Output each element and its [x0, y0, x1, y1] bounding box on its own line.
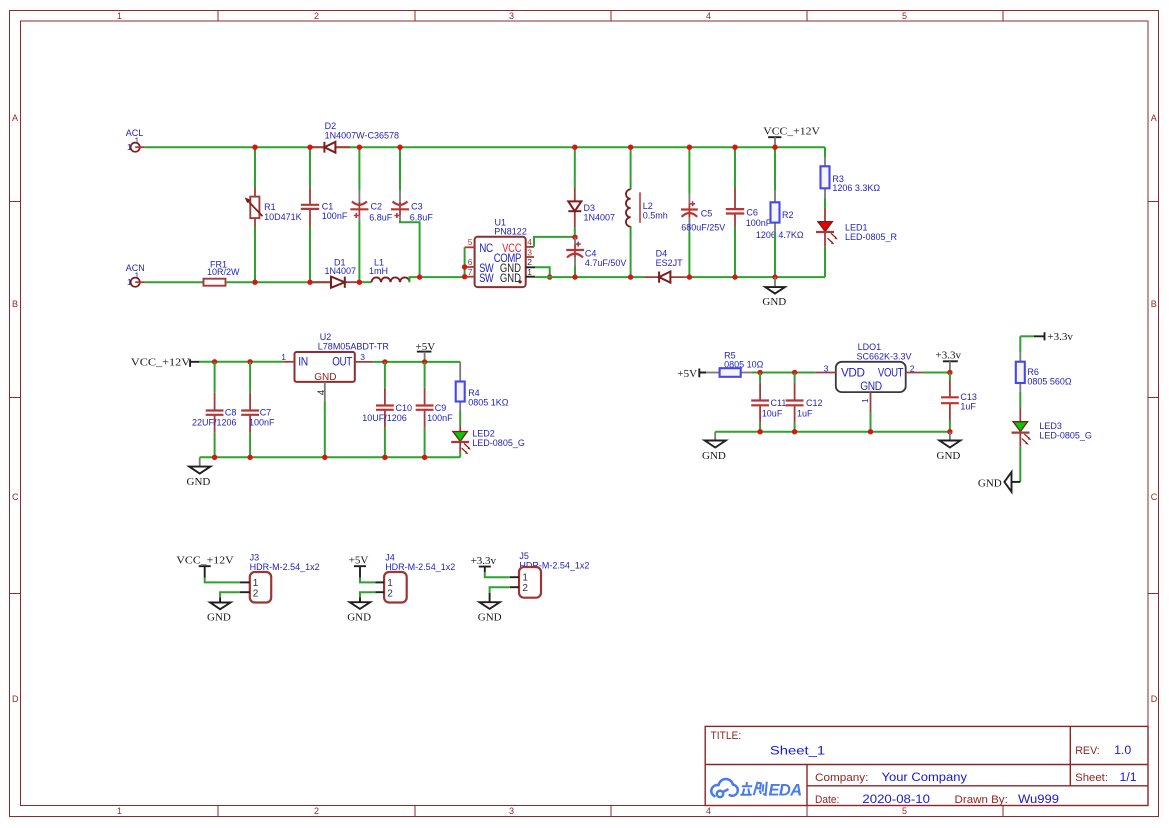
- junction C1 top: [307, 145, 312, 150]
- junction C6 top: [732, 145, 737, 150]
- ground GND row2: [187, 457, 211, 488]
- svg-text:C2: C2: [371, 201, 383, 211]
- svg-text:C3: C3: [411, 201, 423, 211]
- svg-text:GND: GND: [207, 612, 231, 624]
- svg-text:C: C: [12, 492, 19, 502]
- svg-text:10uF: 10uF: [762, 408, 783, 418]
- svg-text:SC662K-3.3V: SC662K-3.3V: [857, 352, 912, 362]
- svg-text:LED2: LED2: [472, 429, 495, 439]
- J3 pin 1 stub: [240, 581, 250, 583]
- J4 pin 2 stub: [375, 591, 384, 593]
- svg-text:100nF: 100nF: [249, 417, 275, 427]
- svg-text:Drawn By:: Drawn By:: [955, 794, 1008, 806]
- wire L1 jog up to U1 rail: [410, 277, 465, 282]
- wire J4 pin2 to gnd: [360, 592, 375, 597]
- resistor R4: [456, 362, 509, 426]
- regulator LDO1 SC662K-3.3V: [836, 342, 912, 393]
- EasyEDA logo character Li: [740, 782, 752, 795]
- junction C13 top: [947, 370, 952, 375]
- J4 pin 1 stub: [375, 581, 384, 583]
- svg-text:A: A: [12, 113, 18, 123]
- wire VCC to U2 pin1: [199, 361, 283, 363]
- svg-text:R1: R1: [264, 202, 276, 212]
- LDO1 pin 3: [815, 364, 836, 374]
- LDO1 pin 1 GND: [860, 392, 871, 432]
- diode D2: [310, 121, 399, 153]
- wire J5 pin2 to gnd: [490, 587, 510, 593]
- svg-text:HDR-M-2.54_1x2: HDR-M-2.54_1x2: [385, 562, 455, 572]
- junction LDO gnd bottom: [868, 429, 873, 434]
- svg-text:1206 4.7KΩ: 1206 4.7KΩ: [756, 230, 804, 240]
- svg-text:10UF/1206: 10UF/1206: [362, 413, 407, 423]
- svg-text:GND: GND: [500, 273, 521, 285]
- svg-text:HDR-M-2.54_1x2: HDR-M-2.54_1x2: [250, 562, 320, 572]
- svg-text:PN8122: PN8122: [494, 227, 527, 237]
- power flag +5V J4: [349, 554, 369, 577]
- svg-text:4.7uF/50V: 4.7uF/50V: [585, 258, 627, 268]
- svg-text:10D471K: 10D471K: [264, 212, 302, 222]
- junction C9 bottom: [422, 455, 427, 460]
- svg-text:GND: GND: [937, 450, 961, 462]
- svg-text:6.8uF: 6.8uF: [369, 213, 393, 223]
- port ACL: [126, 128, 145, 152]
- svg-text:SW: SW: [479, 273, 494, 285]
- svg-text:22UF/1206: 22UF/1206: [192, 417, 237, 427]
- wire LDO out to +3.3v: [922, 372, 950, 374]
- junction C9 +5V node: [422, 359, 427, 364]
- svg-text:0805 560Ω: 0805 560Ω: [1027, 377, 1072, 387]
- capacitor C7: [241, 362, 275, 458]
- svg-text:2: 2: [522, 583, 528, 594]
- svg-text:C7: C7: [260, 407, 272, 417]
- wire ACN to FR1: [145, 281, 204, 283]
- junction C11 bottom: [757, 429, 762, 434]
- capacitor C2: [350, 147, 392, 282]
- junction C5 bottom: [687, 274, 692, 279]
- U2 pin 3: [355, 352, 373, 362]
- svg-text:R4: R4: [468, 388, 480, 398]
- J3 pin 2 stub: [240, 591, 250, 593]
- J5 pin 1 stub: [510, 576, 519, 578]
- junction C4 top node: [572, 235, 577, 240]
- svg-text:1.0: 1.0: [1114, 745, 1131, 757]
- svg-text:5: 5: [902, 806, 907, 816]
- svg-text:VCC_+12V: VCC_+12V: [176, 554, 233, 566]
- svg-text:3: 3: [527, 247, 532, 257]
- svg-text:1206 3.3KΩ: 1206 3.3KΩ: [832, 183, 880, 193]
- svg-text:+3.3v: +3.3v: [1047, 331, 1073, 343]
- svg-text:1N4007: 1N4007: [325, 266, 357, 276]
- svg-text:1uF: 1uF: [960, 402, 976, 412]
- LED LED2: [451, 426, 525, 458]
- svg-text:A: A: [1151, 113, 1157, 123]
- junction C7 top: [247, 359, 252, 364]
- wire J4 pin1: [360, 578, 375, 583]
- U1 pin 2 GND: [526, 257, 535, 267]
- svg-text:LED-0805_R: LED-0805_R: [845, 232, 898, 242]
- svg-text:1: 1: [387, 578, 393, 589]
- J5 pin 2 stub: [510, 586, 519, 588]
- power flag VCC_+12V J3: [176, 554, 233, 577]
- svg-text:2: 2: [387, 589, 393, 600]
- wire LDO bottom rail: [715, 431, 950, 433]
- capacitor C4: [566, 237, 626, 277]
- op-amp U1 PN8122 body: [475, 218, 527, 288]
- resistor R5: [706, 350, 764, 377]
- svg-text:1N4007W-C36578: 1N4007W-C36578: [325, 130, 399, 140]
- wire net ACL top rail: [145, 146, 825, 148]
- svg-text:680uF/25V: 680uF/25V: [681, 222, 725, 232]
- svg-text:GND: GND: [347, 612, 371, 624]
- svg-text:U2: U2: [320, 332, 332, 342]
- diode D4: [644, 249, 686, 283]
- resistor R6: [1016, 336, 1072, 408]
- LDO1 pin 2: [906, 364, 922, 374]
- connector J5 HDR-M-2.54_1x2: [519, 551, 589, 598]
- wire FR1 to D1: [226, 281, 332, 283]
- svg-text:Sheet:: Sheet:: [1075, 772, 1108, 784]
- inductor L1: [358, 257, 410, 282]
- svg-text:REV:: REV:: [1075, 745, 1100, 757]
- wire U1 bottom rail: [535, 276, 644, 278]
- wire J5 pin1: [485, 572, 510, 577]
- junction L2 top: [628, 145, 633, 150]
- regulator U2 L78M05ABDT-TR: [295, 332, 390, 383]
- svg-text:1uF: 1uF: [797, 408, 813, 418]
- svg-text:+5V: +5V: [677, 368, 697, 380]
- svg-text:GND: GND: [314, 371, 337, 383]
- svg-text:IN: IN: [298, 357, 308, 369]
- junction C7 bottom: [247, 455, 252, 460]
- svg-text:LED-0805_G: LED-0805_G: [472, 438, 525, 448]
- svg-text:VDD: VDD: [841, 368, 865, 380]
- svg-text:4: 4: [527, 237, 532, 247]
- svg-text:C: C: [1151, 492, 1158, 502]
- ground GND under R2: [762, 277, 786, 308]
- junction C10 top: [382, 359, 387, 364]
- svg-text:C1: C1: [322, 201, 334, 211]
- U1 pin 1 GND: [526, 267, 535, 277]
- connector J4 HDR-M-2.54_1x2: [384, 552, 455, 602]
- power flag +3.3v J5: [471, 555, 497, 572]
- svg-text:L78M05ABDT-TR: L78M05ABDT-TR: [318, 341, 390, 351]
- frame column ticks top: [218, 11, 1003, 22]
- resistor R3: [821, 147, 881, 208]
- svg-text:C13: C13: [960, 392, 977, 402]
- U1 pin 3 COMP: [526, 247, 534, 257]
- svg-text:TITLE:: TITLE:: [711, 730, 742, 742]
- svg-text:2020-08-10: 2020-08-10: [862, 794, 930, 806]
- frame column ticks bottom: [218, 806, 1003, 817]
- svg-text:GND: GND: [860, 381, 882, 393]
- svg-text:GND: GND: [762, 296, 786, 308]
- power flag VCC_+12V: [763, 126, 820, 148]
- svg-text:6.8uF: 6.8uF: [410, 213, 434, 223]
- svg-text:B: B: [1151, 299, 1157, 309]
- U1 pin 4 VCC: [526, 237, 534, 247]
- svg-text:5: 5: [468, 237, 473, 247]
- resistor R2: [756, 147, 804, 277]
- svg-text:4: 4: [706, 11, 711, 21]
- junction C5 top: [687, 145, 692, 150]
- junction C6 bottom: [732, 274, 737, 279]
- svg-text:GND: GND: [478, 612, 502, 624]
- svg-text:R2: R2: [782, 210, 794, 220]
- svg-text:OUT: OUT: [332, 357, 352, 369]
- U2 pin 1: [281, 352, 294, 362]
- svg-text:C9: C9: [435, 403, 447, 413]
- svg-text:3: 3: [509, 806, 514, 816]
- power flag +5V row2: [416, 341, 436, 362]
- capacitor C8: [192, 362, 237, 458]
- EasyEDA logo cloud: [711, 779, 738, 796]
- svg-text:C11: C11: [771, 398, 787, 408]
- junction C3 top: [397, 145, 402, 150]
- ground GND J4: [347, 597, 371, 623]
- wire D4 to C5: [686, 276, 826, 278]
- power flag +3.3v LDO: [936, 350, 962, 373]
- svg-text:Wu999: Wu999: [1018, 794, 1059, 806]
- junction C12 bottom: [792, 429, 797, 434]
- capacitor C12: [786, 373, 823, 432]
- junction R1 top: [252, 145, 257, 150]
- connector J3 HDR-M-2.54_1x2: [250, 552, 320, 602]
- svg-text:1: 1: [117, 11, 122, 21]
- wire U2 out rail: [373, 361, 460, 363]
- svg-text:J4: J4: [385, 552, 395, 562]
- capacitor C3: [391, 147, 433, 222]
- junction C3 drop on U1 rail: [417, 274, 422, 279]
- frame column numbers bottom: [117, 806, 907, 816]
- svg-text:100nF: 100nF: [427, 413, 453, 423]
- svg-text:LDO1: LDO1: [858, 342, 882, 352]
- junction C8 bottom: [212, 455, 217, 460]
- junction VCC node: [772, 145, 777, 150]
- svg-text:1: 1: [527, 267, 532, 277]
- junction L2 bottom: [628, 274, 633, 279]
- frame row ticks right: [1148, 202, 1159, 594]
- svg-text:7: 7: [468, 267, 473, 277]
- U1 pin 7: [465, 267, 475, 277]
- svg-text:LED1: LED1: [845, 222, 868, 232]
- ground GND LDO left: [702, 432, 726, 462]
- svg-text:LED3: LED3: [1039, 421, 1062, 431]
- svg-text:B: B: [12, 299, 18, 309]
- svg-text:+3.3v: +3.3v: [936, 350, 962, 362]
- svg-text:ES2JT: ES2JT: [656, 258, 684, 268]
- ground GND port LED3: [978, 472, 1020, 492]
- wire R5 to LDO pin3: [752, 372, 815, 374]
- EasyEDA logo cloud eye: [717, 791, 723, 797]
- svg-text:C12: C12: [806, 398, 823, 408]
- svg-text:6: 6: [468, 257, 473, 267]
- junction C1 bottom: [307, 280, 312, 285]
- capacitor C11: [751, 373, 786, 432]
- LED LED1: [816, 208, 898, 277]
- diode D3: [568, 147, 615, 234]
- svg-text:VCC_+12V: VCC_+12V: [763, 126, 820, 138]
- junction C12 top: [792, 370, 797, 375]
- svg-text:C10: C10: [396, 403, 413, 413]
- svg-text:5: 5: [902, 11, 907, 21]
- svg-text:1: 1: [522, 573, 528, 584]
- capacitor C1: [301, 147, 348, 282]
- resistor FR1: [204, 259, 241, 285]
- junction C13 bottom: [947, 429, 952, 434]
- svg-text:+5V: +5V: [349, 554, 369, 566]
- junction C11 top: [757, 370, 762, 375]
- svg-text:+3.3v: +3.3v: [471, 555, 497, 567]
- ground GND J5: [478, 593, 502, 624]
- svg-text:R6: R6: [1027, 367, 1039, 377]
- svg-text:C6: C6: [746, 208, 758, 218]
- svg-text:C5: C5: [701, 208, 713, 218]
- capacitor C6: [726, 147, 772, 277]
- svg-text:3: 3: [360, 352, 365, 362]
- svg-text:D: D: [12, 694, 19, 704]
- svg-text:NC: NC: [479, 243, 493, 255]
- svg-text:100nF: 100nF: [746, 218, 772, 228]
- frame row ticks left: [10, 202, 21, 594]
- frame row letters right: [1151, 113, 1158, 704]
- junction U1 pin 7: [462, 274, 467, 279]
- svg-text:Sheet_1: Sheet_1: [770, 746, 825, 758]
- svg-text:1: 1: [253, 578, 259, 589]
- svg-text:4: 4: [706, 806, 711, 816]
- svg-text:3: 3: [509, 11, 514, 21]
- wire U1 pin2 down to rail: [535, 267, 550, 277]
- frame row letters left: [12, 113, 19, 704]
- svg-text:1: 1: [860, 398, 870, 403]
- junction R1 bottom: [252, 280, 257, 285]
- junction U1 pin 6: [462, 264, 467, 269]
- junction C8 top: [212, 359, 217, 364]
- U1 pin 6: [465, 257, 475, 267]
- svg-text:Date:: Date:: [815, 794, 839, 806]
- svg-text:LED-0805_G: LED-0805_G: [1039, 431, 1092, 441]
- svg-text:1: 1: [281, 352, 286, 362]
- svg-text:1: 1: [117, 806, 122, 816]
- wire U2 bottom rail: [200, 456, 461, 458]
- frame column numbers top: [117, 11, 907, 21]
- capacitor C9: [416, 362, 453, 457]
- capacitor C5: [681, 147, 725, 277]
- inductor L2: [626, 147, 668, 277]
- power flag +3.3v R6: [1020, 331, 1073, 343]
- wire J3 pin1: [205, 578, 240, 583]
- port ACN: [126, 263, 145, 287]
- svg-text:D: D: [1151, 694, 1158, 704]
- capacitor C13: [941, 373, 977, 432]
- LED LED3: [1012, 408, 1092, 482]
- svg-text:Company:: Company:: [815, 772, 868, 784]
- svg-text:C8: C8: [225, 407, 237, 417]
- wire J3 pin2 to gnd: [220, 592, 240, 597]
- svg-text:0.5mh: 0.5mh: [643, 210, 668, 220]
- power flag +5V LDO input: [677, 368, 706, 380]
- svg-text:EDA: EDA: [769, 782, 802, 800]
- junction C10 bottom: [382, 455, 387, 460]
- svg-text:1mH: 1mH: [369, 266, 388, 276]
- junction C4 bottom: [572, 274, 577, 279]
- svg-text:VCC_+12V: VCC_+12V: [131, 356, 190, 368]
- wire U1 pin5 to pin6: [464, 247, 466, 276]
- svg-text:2: 2: [314, 11, 319, 21]
- ground GND J3: [207, 598, 231, 624]
- power flag VCC_+12V input row2: [131, 356, 200, 368]
- svg-text:1N4007: 1N4007: [584, 212, 616, 222]
- svg-text:J3: J3: [250, 552, 260, 562]
- wire C3 bottom jog to U1 rail: [400, 221, 420, 277]
- U2 pin 4 GND: [317, 382, 328, 457]
- junction U2 gnd bottom: [322, 455, 327, 460]
- svg-text:Your Company: Your Company: [882, 772, 968, 784]
- svg-text:2: 2: [527, 257, 532, 267]
- junction C2 top: [357, 145, 362, 150]
- svg-text:4: 4: [317, 389, 328, 395]
- svg-text:VOUT: VOUT: [878, 368, 904, 380]
- svg-text:GND: GND: [978, 478, 1002, 490]
- diode D1: [310, 257, 358, 288]
- junction D1 C2 node: [357, 280, 362, 285]
- svg-text:1/1: 1/1: [1120, 772, 1137, 784]
- capacitor C10: [362, 362, 412, 457]
- svg-text:2: 2: [314, 806, 319, 816]
- svg-text:10R/2W: 10R/2W: [207, 267, 240, 277]
- junction D3 top rail: [572, 145, 577, 150]
- svg-text:100nF: 100nF: [322, 211, 348, 221]
- U1 pin 5: [465, 237, 475, 247]
- svg-text:2: 2: [253, 589, 259, 600]
- svg-text:GND: GND: [702, 450, 726, 462]
- title block outline: [705, 726, 1148, 805]
- junction R2 bottom GND node: [772, 274, 777, 279]
- ground GND LDO right: [937, 432, 961, 462]
- svg-text:0805 1KΩ: 0805 1KΩ: [468, 398, 509, 408]
- junction U1 pin2 drop: [547, 274, 552, 279]
- EasyEDA logo character Chuang: [754, 782, 767, 795]
- svg-text:J5: J5: [519, 551, 529, 561]
- varistor R1: [245, 147, 302, 282]
- wire U1 pin4 up to C4 node: [534, 237, 575, 247]
- svg-text:GND: GND: [187, 476, 211, 488]
